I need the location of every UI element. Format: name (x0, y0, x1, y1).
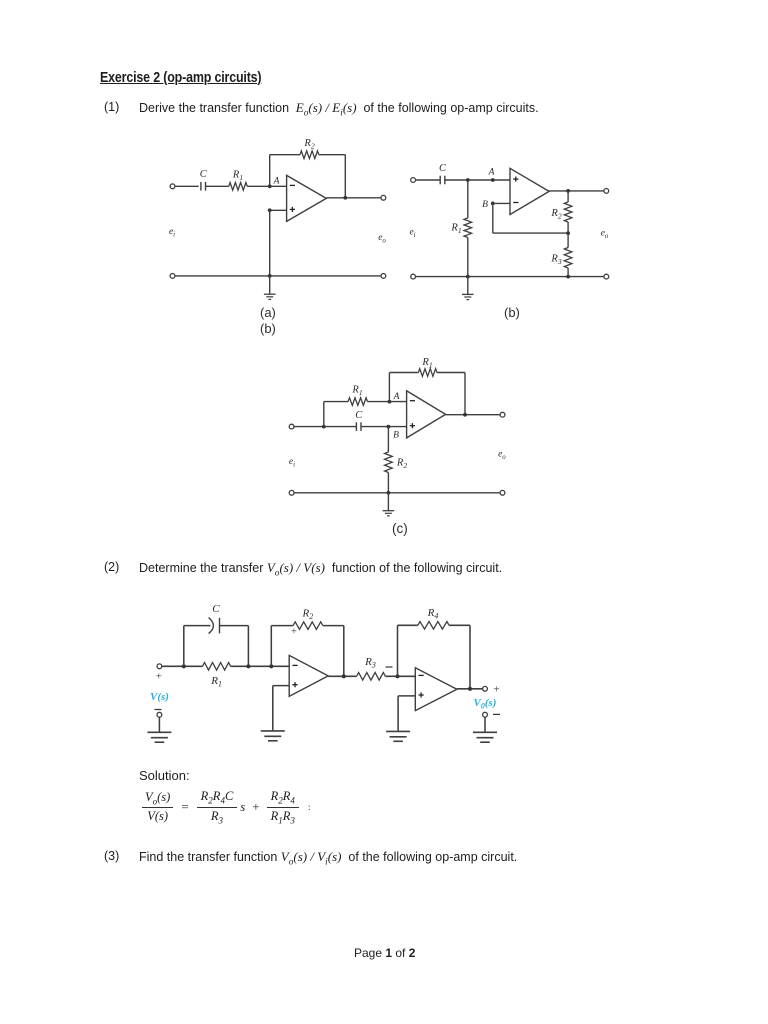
label R2 (b) (550, 208, 561, 221)
wire: ground stub (b) (467, 277, 469, 294)
resistor R1 input (c) (348, 398, 367, 406)
terminal: input left (c) (289, 424, 294, 429)
label + input polarity (2) (156, 671, 162, 683)
op-amp U1 (2) (289, 655, 328, 696)
junction dot rail R3 (b) (566, 275, 570, 279)
svg-text:R2: R2 (550, 208, 561, 221)
svg-text:eo: eo (498, 450, 506, 462)
label C (c) (355, 410, 363, 421)
capacitor C curved (2) (209, 618, 220, 634)
wire: input to capacitor C (a) (175, 185, 199, 187)
footer page number (354, 946, 415, 960)
svg-text:R1: R1 (450, 223, 461, 236)
label + near R2 (2) (291, 627, 297, 638)
node B dot (b) (491, 202, 495, 206)
wire: R2 top right (2) (323, 625, 344, 627)
svg-text:C: C (355, 410, 363, 421)
junction dot divider (b) (566, 231, 570, 235)
wire: R1 to op-amp 1 (2) (231, 665, 290, 667)
caption (b) under (a) (260, 321, 276, 336)
resistor R1 (a) (229, 183, 247, 191)
svg-text:R3: R3 (364, 656, 376, 670)
junction dot C branch left (2) (182, 664, 186, 668)
item (3) text (104, 849, 119, 863)
wire: + input to ground branch (a) (270, 209, 287, 211)
wire: vertical + input down to bottom rail (a) (269, 210, 271, 276)
label - output lower (2) (493, 713, 500, 715)
terminal: output (a) (381, 195, 386, 200)
wire: ground stub (a) (269, 276, 271, 294)
svg-text:eo: eo (601, 229, 609, 241)
junction dot rail R1 (b) (466, 275, 470, 279)
label node A (b) (488, 168, 495, 178)
wire: node B to - input (b) (493, 202, 510, 204)
svg-text:R2: R2 (303, 138, 314, 151)
terminal: input top-left (b) (411, 178, 416, 183)
wire: output down to R2 (b) (567, 191, 569, 202)
wire: node B down (b) (492, 203, 494, 233)
wire: ground stub (c) (387, 493, 389, 511)
wire: R4 down to output (2) (469, 625, 471, 689)
label C (b) (439, 163, 447, 174)
wire: R2 to junction (b) (567, 222, 569, 248)
label V(s) (2) (150, 691, 169, 703)
junction dot R4 branch (2) (395, 674, 399, 678)
junction dot R2 branch (2) (269, 664, 273, 668)
wire: C to node A (b) (445, 179, 510, 181)
svg-text:R4: R4 (427, 607, 439, 621)
wire: R4 top left (2) (398, 624, 418, 626)
wire: R1 branch top (b) (467, 180, 469, 218)
ground op2 (2) (386, 731, 410, 741)
wire: C branch top right (2) (220, 625, 249, 627)
node B dot (c) (387, 425, 391, 429)
wire: op-amp output (b) (549, 190, 604, 192)
capacitor C (b) (440, 176, 445, 185)
wire: op2 + input left (2) (398, 695, 415, 697)
wire: bottom rail (a) (175, 275, 381, 277)
label node B (c) (393, 431, 399, 441)
ground op1 (2) (261, 731, 285, 741)
terminal: bottom-right (c) (500, 490, 505, 495)
wire: input to C (c) (294, 426, 356, 428)
junction dot op2 output (2) (468, 687, 472, 691)
svg-text:+: + (493, 684, 499, 696)
terminal: input lower (2) (157, 712, 162, 717)
label node B (b) (482, 200, 488, 210)
wire: feedback top right (c) (437, 372, 465, 374)
wire: R4 top right (2) (449, 624, 470, 626)
terminal: bottom-right (b) (604, 274, 609, 279)
junction dot R1/C right (2) (246, 664, 250, 668)
label R2 (2) (301, 608, 313, 622)
svg-text:eo: eo (378, 233, 386, 245)
junction dot output (b) (566, 189, 570, 193)
capacitor C (c) (356, 422, 361, 431)
wire: feedback top right segment (a) (319, 154, 346, 156)
label e_i (b) (409, 228, 415, 240)
label C (2) (212, 603, 220, 615)
resistor R3 (b) (564, 248, 572, 269)
wire: feedback down to output (c) (464, 373, 466, 415)
label R2 (c) (396, 458, 407, 471)
wire: C branch top left (2) (184, 625, 211, 627)
junction dot bottom rail (a) (268, 274, 272, 278)
svg-text:A: A (488, 168, 495, 178)
svg-text:C: C (200, 169, 208, 180)
svg-text:R1: R1 (232, 170, 243, 183)
label - lower terminal (2) (155, 709, 162, 711)
op-amp U2 (2) (415, 668, 457, 711)
junction dot + input branch (a) (268, 208, 272, 212)
wire: node A up to feedback (a) (269, 155, 271, 187)
wire: R1 to node A (a) (247, 185, 286, 187)
label V0(s) (2) (474, 697, 497, 710)
svg-text:ei: ei (409, 228, 415, 240)
wire: output (c) (446, 414, 501, 416)
node A dot (c) (388, 400, 392, 404)
label R1 (b) (450, 223, 461, 236)
svg-text:C: C (212, 603, 220, 615)
resistor R2 feedback (a) (300, 151, 319, 159)
junction dot rail (c) (387, 491, 391, 495)
resistor R1 feedback (c) (418, 369, 437, 377)
ground output (2) (473, 732, 497, 742)
label R1 feedback (c) (421, 357, 432, 370)
caption (c) (392, 521, 408, 536)
terminal: bottom-left (a) (170, 274, 175, 279)
label e_o (c) (498, 450, 506, 462)
terminal: output (c) (500, 412, 505, 417)
wire: R2 down to output (2) (343, 626, 345, 677)
svg-text:V0(s): V0(s) (474, 697, 497, 710)
label R2 (a) (303, 138, 314, 151)
svg-text:B: B (482, 200, 488, 210)
resistor R4 (2) (418, 622, 449, 630)
junction dot output node (a) (343, 196, 347, 200)
label e_i (c) (289, 457, 295, 469)
wire: op1 output (2) (328, 675, 356, 677)
op-amp U1 (c) (407, 391, 446, 438)
ground (c) (383, 511, 395, 516)
ground input (2) (147, 732, 171, 742)
wire: op1 + input left (2) (273, 685, 290, 687)
label node A (c) (393, 392, 400, 402)
op-amp U1 (a) (287, 175, 327, 221)
wire: op1 + input down to ground (2) (272, 686, 274, 731)
wire: bottom rail (b) (416, 276, 605, 278)
node A dot (b) (491, 178, 495, 182)
wire: node A up to feedback (c) (388, 373, 390, 402)
wire: R2 top left (2) (271, 625, 293, 627)
wire: R3 to bottom rail (b) (567, 268, 569, 277)
ground (b) (462, 294, 474, 299)
circuit (c): op-amp with R1/C inputs and R1 feedback (0, 0, 1, 1)
label e_i (a) (169, 227, 175, 239)
wire: feedback top left (c) (389, 372, 418, 374)
terminal: input top-left (a) (170, 184, 175, 189)
svg-text:A: A (393, 392, 400, 402)
resistor R2 (b) (564, 202, 572, 222)
label node A (a) (273, 177, 280, 187)
label e_o (b) (601, 229, 609, 241)
svg-text:R1: R1 (421, 357, 432, 370)
svg-text:ei: ei (289, 457, 295, 469)
junction dot op1 output (2) (342, 674, 346, 678)
label R4 (2) (427, 607, 439, 621)
label + output polarity (2) (493, 684, 499, 696)
item (1) text (104, 100, 119, 114)
wire: R2 to bottom rail (c) (387, 473, 389, 493)
wire: bottom rail (c) (294, 492, 500, 494)
wire: op2 + down to ground (2) (397, 696, 399, 731)
label C (a) (200, 169, 208, 180)
terminal: output V0(s) (2) (483, 686, 488, 691)
svg-text:R1: R1 (210, 675, 222, 689)
wire: R4 branch up (2) (397, 625, 399, 676)
label R1 input (c) (351, 385, 362, 398)
wire: R3 to op2 (2) (385, 675, 415, 677)
wire: C to R1 (a) (206, 185, 229, 187)
Solution label (139, 768, 190, 783)
label e_o (a) (378, 233, 386, 245)
svg-text:A: A (273, 177, 280, 187)
svg-text:+: + (156, 671, 162, 683)
wire: C branch up left (2) (183, 626, 185, 667)
svg-text:R1: R1 (351, 385, 362, 398)
wire: output lower to ground (2) (484, 717, 486, 732)
label R1 (2) (210, 675, 222, 689)
wire: feedback top left segment (a) (270, 154, 300, 156)
wire: R2 branch up (2) (270, 626, 272, 667)
wire: op2 output (2) (457, 688, 483, 690)
resistor R3 (2) (357, 673, 386, 681)
svg-text:B: B (393, 431, 399, 441)
wire: R1 to node A (c) (368, 401, 407, 403)
svg-text:R2: R2 (396, 458, 407, 471)
ground (a) (264, 294, 276, 299)
caption (b) right (504, 305, 520, 320)
wire: op-amp output to terminal (a) (326, 197, 381, 199)
wire: feedback vertical down to output (a) (344, 155, 346, 198)
wire: R1 to bottom rail (b) (467, 238, 469, 277)
svg-text:+: + (291, 627, 297, 638)
wire: C branch down right (2) (247, 626, 249, 667)
terminal: input V(s) (2) (157, 664, 162, 669)
capacitor C (a) (201, 182, 206, 191)
resistor R1 (b) (464, 218, 472, 238)
node A junction dot (a) (268, 184, 272, 188)
label R1 (a) (232, 170, 243, 183)
circuit (a): inverting op-amp with series C and R1 (0, 0, 1, 1)
terminal: output (b) (604, 189, 609, 194)
terminal: bottom-left (c) (289, 490, 294, 495)
circuit (2): two-stage op-amp PD controller (0, 0, 1, 1)
wire: lower terminal to ground (2) (158, 717, 160, 732)
junction dot R1 branch (b) (466, 178, 470, 182)
wire: input to C (b) (416, 179, 441, 181)
junction dot output (c) (463, 413, 467, 417)
resistor R2 (2) (293, 622, 323, 630)
wire: input to R1 (2) (162, 665, 203, 667)
svg-text:R2: R2 (301, 608, 313, 622)
wire: B branch to divider junction (b) (493, 232, 568, 234)
title: Exercise 2 (op-amp circuits) (100, 69, 261, 86)
resistor R2 (c) (385, 452, 393, 473)
terminal: bottom-right (a) (381, 274, 386, 279)
label - near R3 (2) (386, 666, 393, 668)
terminal: bottom-left (b) (411, 274, 416, 279)
op-amp U1 (b) (510, 168, 549, 214)
terminal: output lower (2) (483, 712, 488, 717)
caption (a) (260, 305, 276, 320)
svg-text:R3: R3 (550, 254, 561, 267)
svg-text:C: C (439, 163, 447, 174)
label R3 (2) (364, 656, 376, 670)
wire: to R1 (c) (324, 401, 348, 403)
wire: branch up to R1 level (c) (323, 402, 325, 427)
item (2) text (104, 560, 119, 574)
label R3 (b) (550, 254, 561, 267)
wire: node B down to R2 (c) (387, 427, 389, 452)
solution formula (142, 789, 311, 825)
resistor R1 (2) (203, 663, 231, 671)
wire: C to node B (c) (361, 426, 407, 428)
svg-text:V(s): V(s) (150, 691, 169, 703)
junction dot input branch (c) (322, 425, 326, 429)
circuit (b): non-inverting op-amp (0, 0, 1, 1)
svg-text:ei: ei (169, 227, 175, 239)
